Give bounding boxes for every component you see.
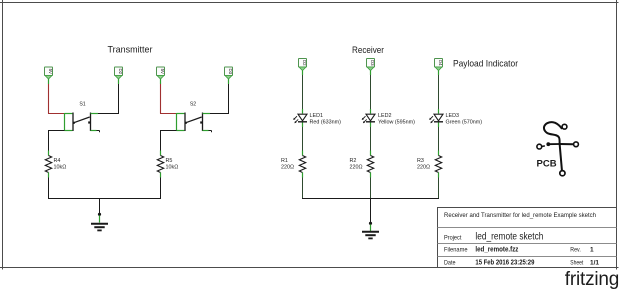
pin stub under D2 label (green) [118,79,120,84]
title block Date row [444,260,599,267]
svg-text:S1: S1 [79,102,85,108]
svg-text:led_remote sketch: led_remote sketch [475,231,543,242]
resistor R2 [350,156,374,173]
wire R5 to ground bus [160,178,162,200]
wire D4 to LED3 [438,71,440,114]
net label D3 [225,67,233,79]
svg-text:Receiver: Receiver [352,45,384,55]
svg-text:1/1: 1/1 [590,260,599,267]
wire receiver ground bus [302,198,439,200]
PCB icon [537,122,579,176]
svg-text:Payload Indicator: Payload Indicator [453,59,518,69]
svg-text:Receiver and Transmitter for l: Receiver and Transmitter for led_remote … [444,212,596,219]
pin S1 bottom-right stub (green, unconnected) [91,131,100,133]
wire LED1 to R1 [302,123,304,156]
label LED2 [378,113,415,126]
svg-text:220Ω: 220Ω [417,164,430,170]
label LED3 [446,113,483,126]
pin R5 bottom (green) [160,173,162,178]
pin under 5V label (green) [48,79,50,84]
svg-text:220Ω: 220Ω [350,164,363,170]
switch S1 [73,113,91,132]
svg-text:Filename: Filename [444,247,468,253]
net label 5V (S2 supply) [157,67,165,79]
resistor R5 [157,156,178,173]
pin stub under D3 label (green) [228,79,230,84]
svg-text:D2: D2 [302,60,307,66]
wire 5V to S1 (red) [48,84,65,114]
title block [438,208,617,268]
svg-text:Green (570nm): Green (570nm) [446,120,483,126]
title block Filename row [444,246,594,253]
svg-text:D3: D3 [370,60,375,66]
wire bus to transmitter ground [99,198,101,214]
svg-text:R2: R2 [350,158,357,164]
junction transmitter ground node [98,213,101,216]
svg-text:fritzing: fritzing [565,269,619,290]
svg-text:Red (633nm): Red (633nm) [310,120,342,126]
pin R5 top (green) [160,151,162,156]
svg-text:Date: Date [444,261,456,267]
svg-text:R1: R1 [281,158,288,164]
svg-text:R5: R5 [166,158,173,164]
svg-text:R3: R3 [417,158,424,164]
svg-text:Yellow (595nm): Yellow (595nm) [378,120,415,126]
pin S2 top-left (green) [177,113,185,131]
wire 5V to S2 (red) [160,84,177,114]
wire transmitter ground bus [48,198,161,200]
ground (transmitter) [91,224,108,231]
svg-text:Rev.: Rev. [570,247,581,253]
svg-text:220Ω: 220Ω [281,164,294,170]
wire R3 to bus [438,173,440,200]
switch S2 [185,113,203,132]
net label 5V (S1 supply) [45,67,53,79]
wire S1 to D2 label [98,84,119,114]
svg-text:D3: D3 [228,68,233,74]
svg-text:led_remote.fzz: led_remote.fzz [475,246,518,253]
LED2 [362,114,375,123]
pin S2 bottom-right stub (green, unconnected) [203,131,212,133]
pin S1 top-right (green) [91,113,99,115]
svg-text:Sheet: Sheet [570,261,583,267]
pin S1 top-left (green) [65,113,73,131]
junction receiver ground node [369,222,372,225]
LED1 [293,114,307,123]
net label D4 (LED3) [435,59,443,71]
svg-text:10kΩ: 10kΩ [166,164,179,170]
svg-text:5V: 5V [48,69,53,74]
svg-text:1: 1 [590,246,594,253]
wire S1 to R4 [48,131,65,151]
wire D2 to LED1 [302,71,304,114]
svg-text:D2: D2 [118,68,123,74]
wire bus to receiver ground [370,198,372,223]
resistor R4 [45,156,66,173]
wire R2 to bus [370,173,372,200]
wire S2 to R5 [160,131,177,151]
net label D2 [115,67,123,79]
LED3 [429,114,443,123]
title block Project row [444,231,543,242]
net label D2 (LED1) [299,59,307,71]
svg-text:PCB: PCB [537,158,557,169]
svg-text:S2: S2 [190,102,196,108]
ground (receiver) [362,232,379,239]
pin ground stem (green) [370,225,372,232]
resistor R3 [417,156,442,173]
pin R4 bottom (green) [48,173,50,178]
svg-text:15 Feb 2016 23:25:29: 15 Feb 2016 23:25:29 [475,260,534,267]
net label D3 (LED2) [367,59,375,71]
pin ground stem (green) [99,216,101,223]
wire R4 to ground bus [48,178,50,200]
svg-text:R4: R4 [54,158,61,164]
label LED1 [310,113,342,126]
svg-text:D4: D4 [438,60,443,66]
wire D3 to LED2 [370,71,372,114]
svg-text:Transmitter: Transmitter [108,45,153,55]
svg-text:10kΩ: 10kΩ [54,164,67,170]
svg-text:LED2: LED2 [378,113,392,119]
svg-text:LED3: LED3 [446,113,460,119]
svg-text:Project: Project [444,235,462,241]
wire S2 to D3 label [210,84,229,114]
pin under 5V label (green) [160,79,162,84]
resistor R1 [281,156,306,173]
wire LED2 to R2 [370,123,372,156]
svg-text:5V: 5V [160,69,165,74]
svg-text:LED1: LED1 [310,113,324,119]
pin R4 top (green) [48,151,50,156]
wire R1 to bus [302,173,304,200]
wire LED3 to R3 [438,123,440,156]
pin S2 top-right (green) [203,113,211,115]
